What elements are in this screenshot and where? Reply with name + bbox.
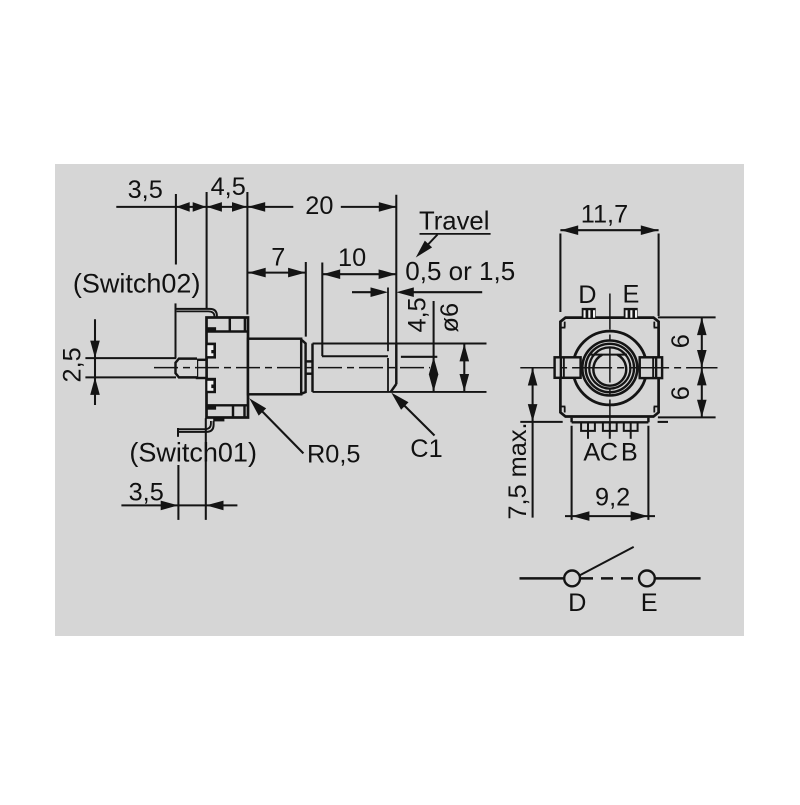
- body bottom band: [207, 405, 249, 417]
- label B pin: [621, 439, 638, 467]
- schematic label E: [641, 589, 658, 617]
- dim 4,5 shaft flat: [401, 297, 439, 392]
- label E pin: [623, 281, 640, 309]
- svg-text:6: 6: [667, 386, 695, 400]
- dim 7,5 max: [504, 368, 668, 520]
- bottom strip: [572, 418, 649, 423]
- dim text 20: [305, 192, 333, 220]
- dim 9,2: [565, 426, 655, 521]
- lug slot bar top: [207, 327, 217, 331]
- body top band: [207, 318, 249, 332]
- schematic label D: [568, 589, 586, 617]
- schematic wire right: [655, 577, 701, 579]
- outer circle: [573, 331, 647, 405]
- dim 7: [248, 244, 306, 337]
- schematic lever: [579, 547, 633, 576]
- second circle: [582, 341, 637, 396]
- svg-text:B: B: [621, 439, 638, 467]
- svg-text:9,2: 9,2: [595, 484, 630, 512]
- svg-text:3,5: 3,5: [128, 176, 163, 204]
- label Switch01: [129, 438, 257, 468]
- label Switch02: [73, 268, 201, 298]
- drawing background panel: [55, 164, 744, 636]
- bottom solder lug Switch01: [178, 419, 224, 437]
- pin E top: [624, 308, 638, 318]
- svg-text:E: E: [623, 281, 640, 309]
- label R0,5 leader: [249, 398, 360, 468]
- svg-text:R0,5: R0,5: [307, 440, 360, 468]
- label C pin: [600, 439, 618, 467]
- shaft neck: [306, 361, 313, 373]
- schematic wire left: [520, 577, 565, 579]
- label C1 leader: [391, 393, 442, 463]
- side tab left: [555, 357, 581, 378]
- svg-text:7: 7: [271, 244, 285, 272]
- switch hook upper: [206, 343, 216, 359]
- switch hook lower: [206, 378, 216, 393]
- extension line body left: [206, 192, 208, 308]
- svg-text:D: D: [568, 589, 586, 617]
- extension line body right: [246, 192, 248, 315]
- svg-text:ø6: ø6: [436, 303, 464, 333]
- encoder body (side view): [207, 318, 249, 418]
- arrows 4,5 top: [207, 202, 247, 212]
- shaft travel line: [387, 288, 389, 392]
- svg-text:7,5 max.: 7,5 max.: [504, 422, 532, 519]
- corner notch TR: [654, 322, 659, 328]
- arrows 3,5 top: [176, 202, 206, 212]
- dim 2,5 pin: [59, 319, 177, 405]
- dim text 4,5 top: [211, 173, 246, 201]
- centerline right view horizontal: [520, 367, 717, 369]
- bushing: [248, 339, 306, 395]
- label D pin: [578, 281, 596, 309]
- svg-text:10: 10: [338, 244, 366, 272]
- label A pin: [583, 439, 600, 467]
- centerline left view: [154, 367, 430, 369]
- svg-text:3,5: 3,5: [129, 479, 164, 507]
- dim text 3,5 top: [128, 176, 163, 204]
- extension line lug tip: [175, 194, 177, 265]
- corner notch TL: [560, 322, 565, 328]
- body front square: [560, 318, 658, 417]
- third circle: [586, 344, 634, 392]
- Travel label: [416, 207, 491, 257]
- svg-text:0,5 or 1,5: 0,5 or 1,5: [405, 256, 515, 286]
- pin C bottom: [603, 422, 617, 439]
- svg-text:A: A: [583, 439, 600, 467]
- actuator box: [197, 360, 207, 378]
- pin D top: [582, 308, 596, 318]
- svg-text:2,5: 2,5: [59, 347, 87, 382]
- dim 3,5 bottom: [121, 418, 237, 520]
- svg-text:C1: C1: [410, 435, 442, 463]
- dim 10: [322, 244, 396, 356]
- dim diameter 6: [436, 303, 469, 392]
- top solder lug Switch02: [176, 303, 217, 358]
- schematic contact D: [564, 571, 580, 587]
- svg-text:(Switch01): (Switch01): [129, 438, 257, 468]
- pin B bottom: [624, 422, 638, 439]
- svg-text:(Switch02): (Switch02): [73, 268, 201, 298]
- corner notch BL: [560, 407, 565, 413]
- dim 11,7: [560, 200, 658, 316]
- svg-text:4,5: 4,5: [404, 297, 432, 332]
- schematic dashed link: [581, 577, 638, 579]
- svg-text:E: E: [641, 589, 658, 617]
- lug slot bar bottom: [207, 406, 217, 410]
- svg-text:11,7: 11,7: [581, 200, 628, 228]
- svg-text:D: D: [578, 281, 596, 309]
- svg-text:20: 20: [305, 192, 333, 220]
- svg-text:6: 6: [667, 334, 695, 348]
- top dimension line: [116, 206, 396, 208]
- svg-text:C: C: [600, 439, 618, 467]
- pin A bottom: [581, 422, 595, 439]
- centerline right view vertical: [609, 294, 611, 437]
- corner notch BR: [654, 407, 659, 413]
- shaft end face: [391, 195, 397, 392]
- svg-text:Travel: Travel: [419, 207, 489, 235]
- fourth circle: [589, 347, 630, 388]
- pin (side view): [176, 359, 198, 378]
- travel dimension 0,5 or 1,5: [352, 256, 515, 297]
- arrows 20: [248, 202, 397, 212]
- svg-text:4,5: 4,5: [211, 173, 246, 201]
- side tab right: [640, 357, 662, 378]
- shaft: [313, 344, 487, 392]
- D-shaped shaft hole: [590, 355, 627, 386]
- schematic contact E: [639, 571, 655, 587]
- dim 6 and 6: [658, 317, 716, 417]
